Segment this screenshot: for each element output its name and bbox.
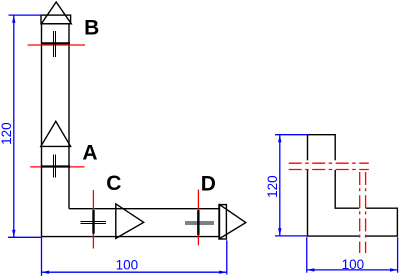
svg-text:C: C xyxy=(106,172,121,195)
svg-text:A: A xyxy=(82,142,97,165)
svg-text:D: D xyxy=(201,173,216,196)
svg-text:120: 120 xyxy=(0,122,14,145)
svg-text:100: 100 xyxy=(116,257,139,272)
svg-text:100: 100 xyxy=(342,257,365,272)
svg-text:120: 120 xyxy=(265,175,280,198)
svg-text:B: B xyxy=(84,17,99,40)
